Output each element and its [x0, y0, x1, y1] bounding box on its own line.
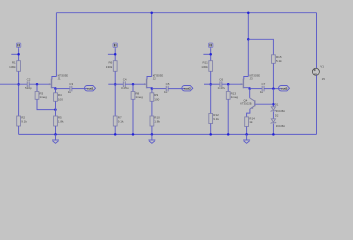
node source junction stage 1 — [54, 87, 57, 90]
node out1 tag — [85, 86, 96, 91]
svg-text:R4: R4 — [58, 93, 62, 97]
resistor R14 1k — [245, 117, 255, 127]
svg-text:15: 15 — [322, 77, 326, 81]
resistor R8 1meg — [131, 92, 143, 100]
power symbol B1 — [16, 43, 20, 49]
svg-text:1u: 1u — [68, 90, 72, 94]
wire gate-resistor to rail stage 3 — [227, 99, 229, 134]
svg-text:out2: out2 — [184, 86, 191, 90]
svg-text:1u: 1u — [260, 90, 264, 94]
resistor R2 9.1k — [17, 116, 28, 126]
wire Q4 base from zeners — [255, 103, 273, 105]
wire V1 bottom — [316, 75, 318, 134]
ground stage 1 — [52, 134, 59, 143]
wire drain riser stage 2 — [151, 13, 153, 77]
node gate junction stage 3 — [227, 83, 230, 86]
svg-text:510p: 510p — [25, 86, 32, 90]
svg-text:130k: 130k — [106, 65, 113, 69]
svg-text:J1: J1 — [58, 77, 61, 81]
svg-text:J2: J2 — [153, 77, 156, 81]
wire zener to rail — [272, 124, 274, 135]
wire between zeners — [272, 112, 274, 119]
svg-text:КС168А: КС168А — [276, 110, 285, 113]
wire source branch bottom stage 2 — [151, 126, 153, 134]
svg-text:1meg: 1meg — [39, 95, 47, 99]
transistor J1 КП303Е — [49, 73, 68, 88]
wire divider mid stage 1 — [18, 71, 20, 116]
node supply junction stage 3 — [209, 53, 212, 56]
node out3 tag — [279, 86, 290, 91]
node drain-rail junction stage 3 — [247, 11, 250, 14]
wire output stage 2 — [152, 88, 166, 90]
node divider-rail junction stage 2 — [114, 133, 117, 136]
node supply junction stage 1 — [17, 53, 20, 56]
wire tick stage 2 — [108, 53, 115, 55]
wire gate-resistor to rail stage 2 — [132, 99, 134, 134]
svg-text:out1: out1 — [87, 86, 94, 90]
node gate junction stage 2 — [132, 83, 135, 86]
wire zener branch upper — [272, 89, 274, 107]
svg-text:C5: C5 — [166, 82, 170, 86]
wire output stage 1 — [56, 88, 70, 90]
svg-text:out3: out3 — [281, 86, 288, 90]
wire gate input stage 3 — [204, 83, 220, 85]
wire supply stub stage 3 — [210, 49, 212, 61]
svg-text:1k: 1k — [249, 120, 253, 124]
svg-text:0.05u: 0.05u — [121, 86, 129, 90]
wire output 2 stage 1 — [72, 88, 88, 90]
node gate junction stage 1 — [36, 83, 39, 86]
svg-text:9.1k: 9.1k — [21, 119, 27, 123]
svg-text:C7: C7 — [262, 82, 266, 86]
zener diode D1 КС168А — [271, 103, 286, 113]
svg-text:100: 100 — [154, 97, 159, 101]
capacitor C5 1u — [164, 82, 170, 94]
svg-text:V1: V1 — [320, 65, 324, 69]
node gate-divider junction stage 1 — [17, 83, 20, 86]
node zener-rail junction — [272, 133, 275, 136]
node R3-source junction — [54, 108, 57, 111]
power symbol B3 — [209, 43, 213, 49]
node source junction stage 2 — [151, 87, 154, 90]
svg-text:J3: J3 — [250, 77, 253, 81]
capacitor C7 1u — [260, 82, 266, 94]
resistor R11 130k — [201, 60, 212, 71]
capacitor C3 1u — [68, 82, 74, 94]
wire divider bottom stage 3 — [210, 124, 212, 135]
battery V1 15V — [312, 65, 325, 82]
wire output stage 3 — [250, 88, 262, 90]
wire output 2 stage 2 — [168, 88, 185, 90]
wire output 2 stage 3 — [264, 88, 281, 90]
svg-text:9.1k: 9.1k — [118, 119, 124, 123]
wire gate-resistor stub stage 3 — [227, 84, 229, 91]
wire supply stub stage 1 — [18, 49, 20, 61]
svg-text:130k: 130k — [9, 65, 16, 69]
wire source branch stage 1 — [55, 89, 57, 93]
node drain-rail junction stage 2 — [150, 11, 153, 14]
svg-text:5.1k: 5.1k — [276, 59, 282, 63]
resistor R10 1.8k — [150, 116, 160, 126]
wire gate stage 3 — [222, 83, 243, 85]
transistor J3 КП303Е — [241, 73, 260, 88]
node out2 tag — [182, 86, 193, 91]
wire gate input stage 2 — [108, 83, 123, 85]
svg-text:КС168А: КС168А — [276, 125, 285, 128]
svg-text:D2: D2 — [275, 113, 279, 117]
wire source branch bottom stage 1 — [55, 126, 57, 134]
ground stage 2 — [148, 134, 155, 143]
wire drain riser stage 3 — [247, 13, 249, 77]
wire gate stage 2 — [125, 83, 146, 85]
node gate-divider junction stage 2 — [114, 83, 117, 86]
resistor R13 1meg — [226, 92, 238, 100]
svg-text:КТ3102Б: КТ3102Б — [240, 102, 252, 106]
wire source branch stage 2 — [151, 89, 153, 93]
capacitor C6 0.47u — [218, 78, 226, 90]
node R14-rail junction — [245, 133, 248, 136]
svg-text:1meg: 1meg — [231, 95, 239, 99]
svg-text:130k: 130k — [201, 65, 208, 69]
svg-text:C4: C4 — [123, 78, 127, 82]
svg-text:0.47u: 0.47u — [218, 86, 226, 90]
svg-text:1.8k: 1.8k — [154, 119, 160, 123]
node source junction stage 3 — [248, 87, 251, 90]
transistor Q4 КТ3102Б — [240, 98, 255, 109]
wire drain riser stage 1 — [55, 13, 57, 77]
zener diode D2 КС168А — [271, 113, 286, 128]
svg-text:R9: R9 — [154, 93, 158, 97]
resistor R9 100 — [150, 93, 160, 102]
wire R14 to rail — [246, 127, 248, 135]
resistor R6 130k — [106, 60, 117, 71]
node R15 tap on riser — [247, 38, 250, 41]
wire gate stage 1 — [29, 83, 51, 85]
svg-text:1meg: 1meg — [135, 95, 143, 99]
svg-text:C2: C2 — [27, 78, 31, 82]
node gate-resistor rail junction stage 3 — [227, 133, 230, 136]
node gate-resistor rail junction stage 2 — [132, 133, 135, 136]
wire divider bottom stage 1 — [18, 126, 20, 134]
svg-text:R6: R6 — [108, 60, 112, 64]
resistor R15 5.1k — [272, 55, 283, 64]
node divider-rail junction stage 3 — [209, 133, 212, 136]
svg-text:R1: R1 — [12, 60, 16, 64]
wire supply stub stage 2 — [114, 49, 116, 61]
wire V1 top — [316, 13, 318, 69]
transistor J2 КП303Е — [144, 73, 163, 88]
wire gate input stage 1 — [0, 83, 27, 85]
svg-text:1u: 1u — [164, 90, 168, 94]
svg-text:1.8k: 1.8k — [58, 119, 64, 123]
svg-text:C6: C6 — [219, 78, 223, 82]
wire gate-resistor stub stage 2 — [132, 84, 134, 91]
svg-text:C3: C3 — [69, 82, 73, 86]
resistor R4 100 — [54, 93, 64, 102]
wire tick stage 1 — [11, 53, 18, 55]
wire divider mid stage 2 — [114, 71, 116, 116]
wire source branch mid stage 1 — [55, 101, 57, 116]
wire R3 to source branch — [37, 99, 55, 109]
resistor R5 1.8k — [54, 116, 64, 126]
wire Q4 collector lead — [249, 89, 251, 98]
node source-rail junction stage 1 — [54, 133, 57, 136]
resistor R1 130k — [9, 60, 20, 71]
node output-zener junction — [272, 87, 275, 90]
node gate-divider junction stage 3 — [209, 83, 212, 86]
wire bottom ground rail — [19, 133, 317, 135]
resistor R3 1meg — [35, 92, 47, 100]
resistor R12 9.1k — [209, 113, 220, 123]
wire top power rail — [56, 12, 316, 14]
wire tick stage 3 — [203, 53, 210, 55]
wire riser to R15 — [248, 39, 273, 55]
svg-text:D1: D1 — [275, 103, 279, 107]
node supply junction stage 2 — [114, 53, 117, 56]
wire divider mid stage 3 — [210, 71, 212, 113]
wire R15 to output node — [272, 63, 274, 88]
wire divider bottom stage 2 — [114, 126, 116, 134]
wire Q4 emitter to R14 — [247, 109, 250, 117]
capacitor C2 510p — [25, 78, 32, 90]
capacitor C4 0.05u — [121, 78, 129, 90]
resistor R7 9.1k — [113, 116, 124, 126]
svg-text:9.1k: 9.1k — [213, 117, 219, 121]
ground output stage — [243, 134, 250, 143]
power symbol B2 — [113, 43, 117, 49]
node emitter-zener junction — [272, 103, 275, 106]
svg-text:100: 100 — [58, 97, 63, 101]
node source-rail junction stage 2 — [151, 133, 154, 136]
svg-text:R11: R11 — [203, 60, 209, 64]
wire gate-resistor stub stage 1 — [36, 84, 38, 91]
wire source branch mid stage 2 — [151, 101, 153, 116]
